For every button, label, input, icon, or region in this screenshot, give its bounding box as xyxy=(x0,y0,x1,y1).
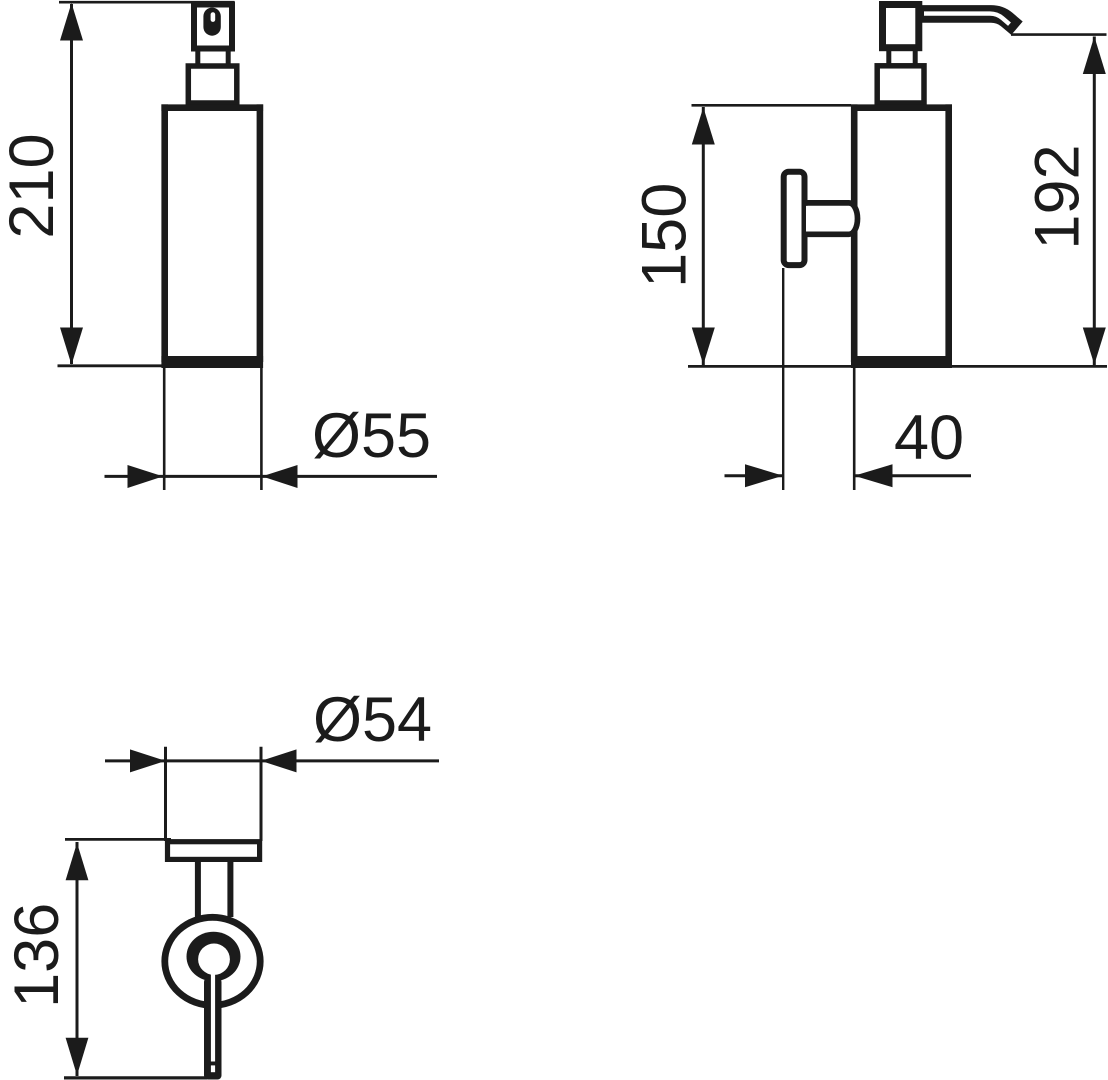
side view: mounting arm interior xyxy=(806,206,855,232)
side view: pump collar xyxy=(877,66,924,103)
front view: body left edge xyxy=(161,104,168,362)
top view: tube inner white stripe xyxy=(211,970,215,1062)
dim 210: top extension line xyxy=(59,1,235,4)
dim 210: bottom extension line xyxy=(58,364,164,367)
dim 136: bottom extension line xyxy=(64,1076,207,1079)
top view: cup left line xyxy=(164,747,167,841)
front view: pump neck right line xyxy=(226,49,231,67)
front view: glass cup left line xyxy=(163,368,166,490)
side view: mounting arm end cap xyxy=(849,203,857,234)
svg-text:Ø55: Ø55 xyxy=(312,401,431,471)
top view: tube white dash xyxy=(211,1065,215,1072)
side view: body left edge xyxy=(851,104,858,362)
top view: stem right line xyxy=(227,862,233,917)
front view: pump collar xyxy=(188,66,237,103)
dim diameter-54: right arrowhead xyxy=(261,749,297,772)
top view: hub ring xyxy=(187,932,241,982)
side view: pump neck right line xyxy=(913,48,918,66)
dim diameter-55: dimension line xyxy=(105,475,438,478)
svg-text:150: 150 xyxy=(629,183,699,288)
dim 150: top extension line xyxy=(692,104,852,107)
side view: mounting arm bottom line xyxy=(806,231,849,237)
top view: holder ring xyxy=(168,842,260,860)
dim 150: lower arrowhead xyxy=(692,328,715,365)
dim 210: upper arrowhead xyxy=(60,3,83,41)
side view: pump neck left line xyxy=(886,48,891,66)
svg-text:210: 210 xyxy=(0,133,67,238)
svg-text:192: 192 xyxy=(1022,144,1092,249)
front view: body top edge xyxy=(161,104,263,111)
side view: wall plate xyxy=(784,172,805,265)
dim diameter-54: left arrowhead xyxy=(130,749,166,772)
dim 136: lower arrowhead xyxy=(66,1038,89,1076)
dim 40: left arrowhead xyxy=(745,464,783,487)
dim 150: dimension line xyxy=(702,107,705,365)
dim 136: dimension line xyxy=(76,842,79,1076)
dim 150: upper arrowhead xyxy=(692,107,715,144)
dim 192: dimension line xyxy=(1093,37,1096,366)
side view: body top edge xyxy=(851,104,952,111)
top view: hub hole xyxy=(198,944,230,975)
dim diameter-55: left arrowhead xyxy=(128,465,164,488)
svg-text:40: 40 xyxy=(894,403,964,473)
svg-text:Ø54: Ø54 xyxy=(313,685,432,755)
top view: cup right line xyxy=(260,747,263,841)
shared baseline extension line xyxy=(688,365,1107,368)
side view: mounting arm top line xyxy=(806,200,849,206)
dim 40: body-edge extension xyxy=(853,368,856,490)
front view: spray nozzle xyxy=(203,8,220,36)
dim 40: right arrowhead xyxy=(854,464,892,487)
side view: body bottom band xyxy=(851,356,952,368)
dim 136: upper arrowhead xyxy=(66,843,89,880)
dim diameter-55: right arrowhead xyxy=(262,465,298,488)
dim 40: wall-line extension xyxy=(782,268,784,490)
dim 210: dimension line xyxy=(70,4,73,364)
svg-text:136: 136 xyxy=(2,903,72,1008)
front view: body right edge xyxy=(257,104,264,362)
dim 210: lower arrowhead xyxy=(60,328,83,365)
dim 192: upper arrowhead xyxy=(1083,36,1106,74)
top view: stem left line xyxy=(195,862,201,917)
front view: body bottom band xyxy=(161,356,263,368)
dim 40: left dimension line xyxy=(725,474,784,477)
front view: pump head xyxy=(194,5,232,49)
side view: spout outline xyxy=(920,14,1017,28)
side view: body right edge xyxy=(945,104,952,362)
dim 192: top extension line xyxy=(1011,33,1107,36)
dim diameter-54: dimension line xyxy=(105,759,439,762)
front view: nozzle slot xyxy=(211,12,216,22)
side view: spout inner white channel xyxy=(924,14,1010,25)
top view: wall rosette circle xyxy=(165,917,260,1005)
front view: glass cup right line xyxy=(260,368,263,490)
dim 40: right dimension line xyxy=(854,474,971,477)
side view: pump head xyxy=(883,5,919,48)
dim 136: top extension line xyxy=(65,838,171,841)
front view: pump neck left line xyxy=(195,49,200,67)
top view: suction tube xyxy=(204,978,222,1080)
dim 192: lower arrowhead xyxy=(1083,328,1106,365)
